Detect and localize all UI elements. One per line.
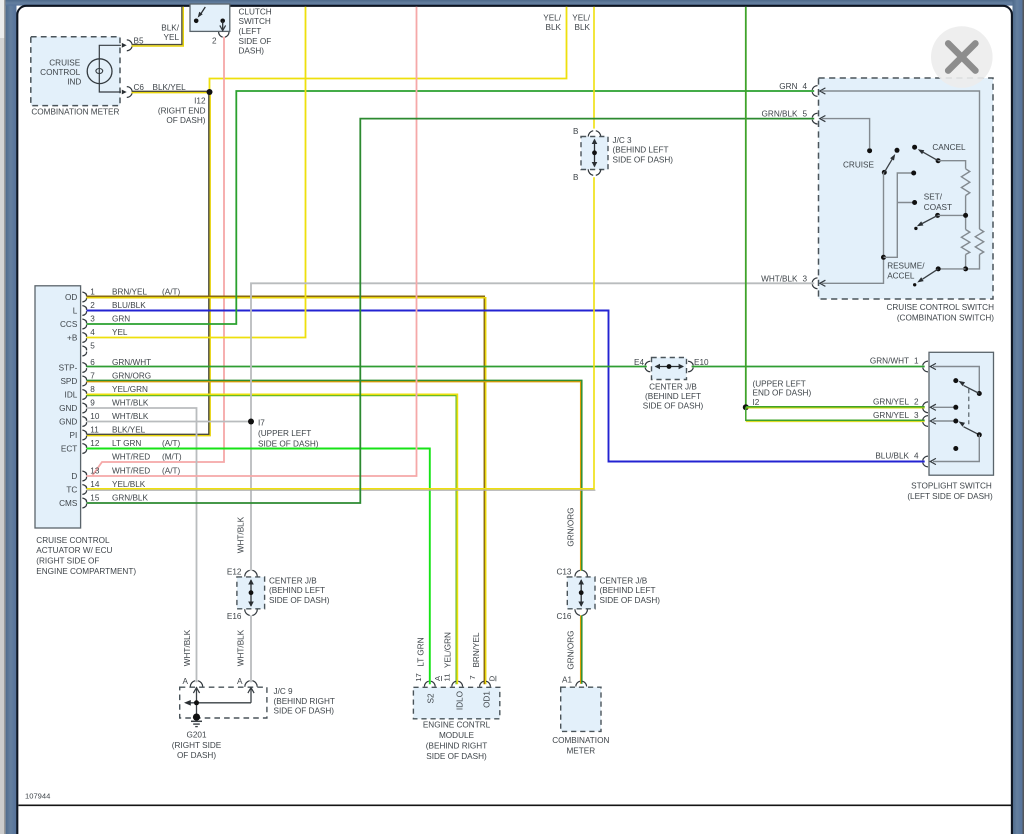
contact dots SET/COAST branch (911, 171, 916, 176)
wire WHT/BLK I7 down to E12 (250, 422, 252, 571)
svg-text:GRN/BLK: GRN/BLK (112, 493, 148, 502)
svg-text:(LEFT: (LEFT (239, 27, 262, 36)
wire BLK/YEL I12 down to actuator pin 11 (87, 92, 211, 436)
clutch switch pin 2 connector (212, 32, 229, 46)
wire YEL pin 4 to top edge (87, 7, 306, 338)
wire GRN/YEL top edge down to I2 (745, 7, 747, 408)
wire YEL/GRN pin 8 to ECM IDLO (87, 394, 458, 684)
svg-text:OF DASH): OF DASH) (166, 116, 205, 125)
stoplight switch pin 2 connector GRN/YEL (873, 398, 936, 413)
svg-text:3: 3 (802, 274, 807, 283)
wire GRN/YEL I2 to stoplight switch pin 3 (746, 407, 925, 421)
svg-text:8: 8 (90, 385, 95, 394)
svg-text:WHT/BLK: WHT/BLK (237, 516, 246, 553)
svg-text:(RIGHT END: (RIGHT END (158, 106, 206, 115)
svg-text:COMBINATION METER: COMBINATION METER (31, 108, 119, 117)
svg-text:GND: GND (59, 404, 77, 413)
svg-text:COMBINATION: COMBINATION (552, 736, 609, 745)
svg-text:SET/: SET/ (924, 193, 943, 202)
svg-text:SIDE OF DASH): SIDE OF DASH) (426, 752, 487, 761)
svg-text:CENTER J/B: CENTER J/B (269, 577, 317, 586)
svg-text:3: 3 (90, 314, 95, 323)
svg-text:COAST: COAST (924, 203, 952, 212)
cruise control actuator box U1 (35, 286, 81, 528)
svg-text:E4: E4 (634, 358, 644, 367)
svg-text:GRN/YEL: GRN/YEL (873, 398, 909, 407)
svg-text:10: 10 (90, 412, 100, 421)
svg-text:ENGINE COMPARTMENT): ENGINE COMPARTMENT) (36, 567, 136, 576)
svg-text:GRN/WHT: GRN/WHT (112, 358, 151, 367)
svg-text:SIDE OF DASH): SIDE OF DASH) (269, 596, 330, 605)
actuator pin connectors and labels (59, 287, 182, 508)
combination meter (top) dashed box (31, 37, 120, 117)
svg-text:BLK: BLK (546, 23, 562, 32)
svg-text:A: A (183, 677, 189, 686)
svg-text:ENGINE CONTRL: ENGINE CONTRL (423, 721, 491, 730)
svg-text:(BEHIND RIGHT: (BEHIND RIGHT (274, 697, 335, 706)
svg-text:12: 12 (90, 439, 100, 448)
wire WHT/BLK I7 up to cruise switch pin 3 (251, 283, 814, 421)
svg-text:CMS: CMS (59, 499, 78, 508)
wire GRN/YEL I2 to stoplight switch pin 2 (746, 407, 925, 408)
wire SET/COAST to resistor chain (938, 214, 966, 216)
svg-text:2: 2 (212, 37, 217, 46)
svg-text:9: 9 (90, 398, 95, 407)
wire WHT/BLK pin 9 down to J/C 9 (87, 408, 197, 682)
svg-text:L: L (73, 307, 78, 316)
svg-text:(A/T): (A/T) (162, 466, 180, 475)
svg-text:(BEHIND LEFT: (BEHIND LEFT (645, 392, 701, 401)
svg-text:+B: +B (67, 334, 78, 343)
svg-text:LT GRN: LT GRN (417, 637, 426, 666)
wire BLU/BLK pin 2 to stoplight switch pin 4 (87, 311, 925, 462)
svg-text:4: 4 (802, 82, 807, 91)
svg-text:A: A (237, 677, 243, 686)
modal blue-gray frame: top band (6, 0, 1013, 6)
wire R2 to bottom junction (965, 255, 967, 269)
switch CANCEL (912, 143, 966, 163)
cruise control switch box SW1 (819, 78, 994, 299)
wire GRN/WHT pin 6 to E4 junction (87, 366, 647, 368)
svg-text:OF DASH): OF DASH) (177, 751, 216, 760)
svg-text:YEL: YEL (112, 328, 128, 337)
svg-text:RESUME/: RESUME/ (887, 262, 925, 271)
svg-text:(BEHIND LEFT: (BEHIND LEFT (269, 586, 325, 595)
cruise control switch caption (886, 303, 994, 322)
svg-text:YEL: YEL (164, 33, 180, 42)
resistor R3 (975, 229, 983, 255)
svg-text:SPD: SPD (60, 377, 77, 386)
cruise internal middle branch (884, 173, 915, 257)
svg-text:2: 2 (914, 398, 919, 407)
stoplight switch caption (907, 482, 993, 501)
wire WHT/RED clutch pin 2 down to M/T row (93, 37, 225, 476)
svg-text:B: B (573, 127, 579, 136)
stoplight switch normally-open dot (953, 446, 958, 451)
wire WHT/RED pin 13 (A/T) to top edge (87, 7, 417, 476)
svg-text:GRN/ORG: GRN/ORG (112, 371, 151, 380)
diagram bottom frame line (18, 804, 1011, 806)
svg-text:I7: I7 (258, 419, 265, 428)
connector B5 (122, 36, 144, 50)
junction dot cruise common (881, 255, 886, 260)
switch SET/COAST (914, 193, 952, 230)
ground G201 (172, 714, 222, 761)
svg-text:SIDE OF DASH): SIDE OF DASH) (600, 596, 661, 605)
wire LT GRN pin 12 to ECM S2 (87, 449, 430, 685)
svg-text:(RIGHT SIDE: (RIGHT SIDE (172, 741, 222, 750)
svg-text:CENTER J/B: CENTER J/B (600, 577, 648, 586)
svg-text:J/C 3: J/C 3 (613, 136, 633, 145)
modal blue-gray frame: left bar (6, 0, 17, 834)
wire BLK/YEL B5 to top edge (132, 7, 184, 46)
svg-text:STP-: STP- (59, 364, 78, 373)
wire R3 bottom to junction (966, 255, 980, 269)
clutch switch box (190, 4, 272, 56)
svg-text:OD1: OD1 (482, 691, 491, 708)
stoplight switch pin 4 connector BLU/BLK (875, 452, 936, 467)
svg-text:BLK/YEL: BLK/YEL (153, 83, 187, 92)
svg-text:D: D (488, 675, 497, 681)
svg-text:(BEHIND LEFT: (BEHIND LEFT (613, 146, 669, 155)
svg-text:CRUISE CONTROL SWITCH: CRUISE CONTROL SWITCH (886, 303, 994, 312)
wire YEL/BLK I12 up and right to top edge (210, 7, 567, 92)
cruise switch pin 4 connector GRN (779, 82, 825, 96)
engine control module box (413, 673, 499, 761)
svg-text:J/C 9: J/C 9 (274, 687, 294, 696)
svg-text:SIDE OF DASH): SIDE OF DASH) (613, 155, 674, 164)
svg-text:WHT/BLK: WHT/BLK (761, 274, 798, 283)
svg-text:4: 4 (914, 452, 919, 461)
svg-text:11: 11 (90, 425, 99, 434)
wire BLK/YEL C6 to I12 (132, 91, 210, 92)
svg-text:STOPLIGHT SWITCH: STOPLIGHT SWITCH (911, 482, 992, 491)
svg-text:(M/T): (M/T) (162, 452, 182, 461)
svg-text:CRUISE: CRUISE (843, 160, 874, 169)
svg-text:OD: OD (65, 293, 77, 302)
svg-text:PI: PI (70, 431, 78, 440)
junction I2 (743, 380, 812, 411)
svg-text:GND: GND (59, 418, 77, 427)
svg-text:C16: C16 (556, 612, 571, 621)
svg-text:(RIGHT SIDE OF: (RIGHT SIDE OF (36, 557, 99, 566)
svg-text:YEL/: YEL/ (572, 14, 590, 23)
svg-text:CRUISE CONTROL: CRUISE CONTROL (36, 536, 110, 545)
svg-text:(BEHIND RIGHT: (BEHIND RIGHT (426, 742, 487, 751)
svg-text:WHT/RED: WHT/RED (112, 466, 150, 475)
right dark page strip (1023, 0, 1024, 834)
svg-text:ACCEL: ACCEL (887, 272, 915, 281)
wire YEL/BLK pin 14 to J/C 3 vertical (87, 177, 596, 490)
svg-text:BLK/: BLK/ (161, 24, 179, 33)
stoplight switch pin 2 internal wire (933, 405, 958, 410)
svg-text:IDLO: IDLO (455, 691, 464, 710)
wire GRN/ORG C16 to combination meter A1 (581, 615, 582, 684)
svg-text:LT GRN: LT GRN (112, 439, 141, 448)
svg-text:GRN/ORG: GRN/ORG (566, 507, 575, 546)
junction block E4/E10 center J/B (634, 358, 709, 411)
svg-text:BLK: BLK (575, 23, 591, 32)
svg-text:15: 15 (90, 493, 100, 502)
close button (931, 26, 993, 88)
cruise switch pin 5 connector GRN/BLK (762, 110, 826, 124)
wire GRN/BLK pin 15 to cruise switch pin 5 (87, 119, 815, 503)
svg-text:CCS: CCS (60, 320, 78, 329)
svg-text:I2: I2 (753, 398, 760, 407)
wire CANCEL to R1 (938, 161, 966, 169)
svg-text:YEL/: YEL/ (543, 14, 561, 23)
svg-text:BLK/YEL: BLK/YEL (112, 425, 146, 434)
svg-text:SIDE OF DASH): SIDE OF DASH) (258, 439, 319, 448)
svg-text:E10: E10 (694, 358, 709, 367)
svg-text:C13: C13 (556, 567, 571, 576)
left page scrollbar strip (0, 0, 7, 834)
svg-text:G201: G201 (186, 731, 206, 740)
svg-text:17: 17 (414, 673, 423, 681)
junction connector J/C 9 (180, 677, 335, 718)
svg-text:13: 13 (90, 466, 100, 475)
svg-text:107944: 107944 (25, 792, 50, 801)
svg-text:2: 2 (90, 301, 95, 310)
svg-text:SIDE OF DASH): SIDE OF DASH) (643, 402, 704, 411)
wire GRN/WHT E10 to stoplight switch pin 1 (692, 366, 925, 368)
cruise control actuator caption (36, 536, 136, 576)
svg-text:MODULE: MODULE (439, 731, 475, 740)
svg-text:5: 5 (802, 110, 807, 119)
svg-text:4: 4 (90, 328, 95, 337)
svg-text:(UPPER LEFT: (UPPER LEFT (753, 380, 806, 389)
svg-text:I12: I12 (194, 97, 206, 106)
stoplight switch mechanical dashed link (968, 389, 970, 425)
connector C6 (122, 83, 186, 98)
svg-text:CLUTCH: CLUTCH (239, 7, 272, 16)
svg-text:(UPPER LEFT: (UPPER LEFT (258, 429, 311, 438)
svg-text:BRN/YEL: BRN/YEL (472, 632, 481, 667)
svg-text:SIDE OF: SIDE OF (239, 37, 272, 46)
svg-text:YEL/BLK: YEL/BLK (112, 480, 146, 489)
svg-text:A1: A1 (562, 676, 572, 685)
stoplight switch box SW2 (929, 352, 994, 475)
junction block C13/C16 center J/B (556, 567, 660, 621)
svg-text:SWITCH: SWITCH (239, 17, 271, 26)
svg-text:CANCEL: CANCEL (932, 143, 966, 152)
lamp CRUISE CONTROL IND (87, 59, 112, 84)
stoplight switch upper movable contact (953, 378, 982, 396)
junction connector J/C 3 (573, 127, 673, 182)
modal blue-gray frame: right bar (1013, 0, 1023, 834)
svg-text:E12: E12 (227, 567, 242, 576)
wire GRN/ORG pin 7 to C13 (87, 380, 582, 570)
svg-text:BLU/BLK: BLU/BLK (112, 301, 146, 310)
junction block E12/E16 center J/B (227, 567, 330, 621)
stoplight switch pin 1 connector GRN/WHT (870, 357, 936, 372)
svg-text:3: 3 (914, 411, 919, 420)
wire R1 to junction (965, 196, 967, 230)
svg-text:WHT/BLK: WHT/BLK (237, 629, 246, 666)
switch RESUME/ACCEL (887, 262, 965, 287)
svg-text:14: 14 (90, 480, 100, 489)
svg-text:YEL/GRN: YEL/GRN (112, 385, 148, 394)
stoplight switch pin 3 internal wire and lower contact (933, 419, 982, 438)
junction I7 (248, 419, 319, 449)
svg-text:(A/T): (A/T) (162, 439, 180, 448)
cruise switch internal wire pin4 to R3 (822, 91, 980, 229)
wire BRN/YEL pin 1 to ECM OD1 (87, 296, 486, 684)
svg-text:C6: C6 (134, 83, 145, 92)
svg-text:1: 1 (90, 287, 95, 296)
svg-text:(A/T): (A/T) (162, 287, 180, 296)
svg-text:WHT/BLK: WHT/BLK (183, 629, 192, 666)
combination meter (bottom) box (552, 676, 609, 756)
svg-text:D: D (71, 472, 77, 481)
stoplight switch pin 4 internal wire (933, 435, 979, 462)
svg-text:METER: METER (566, 746, 595, 755)
wire WHT/BLK pin 10 to I7 (87, 421, 252, 423)
svg-text:GRN/BLK: GRN/BLK (762, 110, 798, 119)
svg-text:GRN: GRN (779, 82, 797, 91)
svg-text:1: 1 (914, 357, 919, 366)
svg-text:WHT/BLK: WHT/BLK (112, 398, 149, 407)
svg-text:YEL/GRN: YEL/GRN (444, 632, 453, 668)
stoplight switch pin 3 connector GRN/YEL (873, 411, 936, 426)
svg-text:IND: IND (67, 78, 81, 87)
wire WHT/BLK E16 down to J/C 9 (250, 615, 252, 682)
svg-text:(COMBINATION SWITCH): (COMBINATION SWITCH) (897, 313, 994, 322)
svg-text:(BEHIND LEFT: (BEHIND LEFT (600, 586, 656, 595)
svg-text:ECT: ECT (61, 445, 77, 454)
switch CRUISE (843, 148, 900, 175)
svg-text:CONTROL: CONTROL (40, 68, 80, 77)
resistor R2 (961, 230, 969, 255)
svg-text:BLU/BLK: BLU/BLK (875, 452, 909, 461)
svg-text:7: 7 (90, 371, 95, 380)
svg-text:IDL: IDL (65, 391, 78, 400)
svg-text:GRN/WHT: GRN/WHT (870, 357, 909, 366)
svg-text:DASH): DASH) (239, 47, 265, 56)
svg-text:ACTUATOR W/ ECU: ACTUATOR W/ ECU (36, 546, 112, 555)
svg-text:CENTER J/B: CENTER J/B (649, 383, 697, 392)
cruise switch internal wire pin5 to CRUISE contact (822, 119, 870, 148)
svg-text:END OF DASH): END OF DASH) (753, 388, 812, 397)
cruise switch pin 3 connector WHT/BLK (761, 274, 825, 288)
svg-text:WHT/RED: WHT/RED (112, 452, 150, 461)
svg-text:7: 7 (468, 675, 477, 679)
svg-text:GRN/YEL: GRN/YEL (873, 411, 909, 420)
wire YEL/BLK J/C 3 top to top edge (572, 7, 594, 129)
svg-text:GRN: GRN (112, 314, 130, 323)
svg-text:B: B (573, 173, 579, 182)
junction I12 (158, 89, 213, 125)
svg-text:6: 6 (90, 358, 95, 367)
svg-text:5: 5 (90, 341, 95, 350)
cruise control indicator label (40, 59, 81, 87)
svg-text:GRN/ORG: GRN/ORG (566, 630, 575, 669)
wire GRN pin 3 to cruise switch pin 4 (87, 91, 815, 324)
svg-text:BRN/YEL: BRN/YEL (112, 287, 147, 296)
svg-text:CRUISE: CRUISE (49, 59, 80, 68)
svg-text:E16: E16 (227, 612, 242, 621)
svg-text:S2: S2 (427, 693, 436, 703)
resistor R1 (961, 169, 969, 196)
stoplight switch internal upper contact wiring (933, 367, 979, 394)
svg-text:WHT/BLK: WHT/BLK (112, 412, 149, 421)
svg-text:(LEFT SIDE OF DASH): (LEFT SIDE OF DASH) (907, 492, 993, 501)
svg-text:TC: TC (66, 486, 77, 495)
cruise switch internal vertical to pin3 (822, 172, 884, 283)
svg-text:SIDE OF DASH): SIDE OF DASH) (274, 707, 335, 716)
lamp internal wiring (99, 45, 121, 92)
svg-text:11: 11 (442, 674, 451, 682)
